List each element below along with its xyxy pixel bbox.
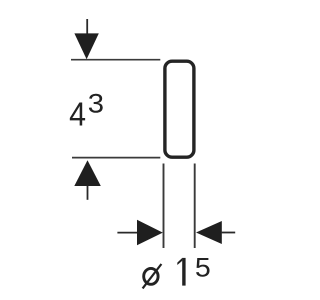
left dimension arrow tail <box>117 232 138 234</box>
label 1 flag <box>177 258 182 265</box>
bottom dimension arrowhead <box>74 160 101 186</box>
label 1 stem <box>182 258 185 286</box>
wire bottom extension line <box>72 157 160 159</box>
top dimension arrowhead <box>74 33 98 59</box>
right dimension arrow tail <box>222 232 236 234</box>
top dimension arrow tail <box>86 19 88 35</box>
svg-text:5: 5 <box>195 252 211 282</box>
svg-text:3: 3 <box>88 89 104 118</box>
bottom dimension arrow tail <box>87 186 89 200</box>
svg-text:4: 4 <box>69 95 86 133</box>
wire left vertical extension line <box>163 164 165 249</box>
label diameter symbol slash <box>143 264 162 288</box>
wire right vertical extension line <box>194 164 196 249</box>
wire top extension line <box>71 59 160 61</box>
pill outline <box>165 61 194 157</box>
label diameter symbol bowl <box>144 268 158 284</box>
left dimension arrowhead <box>137 220 163 245</box>
right dimension arrowhead <box>196 221 222 244</box>
